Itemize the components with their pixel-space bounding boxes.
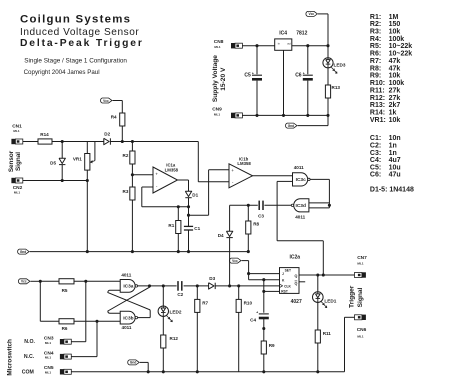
svg-text:CLK: CLK xyxy=(284,284,291,288)
svg-text:2k7: 2k7 xyxy=(389,102,401,109)
svg-text:R2:: R2: xyxy=(370,21,381,28)
svg-text:COM: COM xyxy=(22,370,34,376)
svg-text:47k: 47k xyxy=(389,58,401,65)
svg-text:IC3c: IC3c xyxy=(296,177,306,183)
svg-text:R8:: R8: xyxy=(370,65,381,72)
svg-text:C1: C1 xyxy=(194,226,200,231)
svg-text:R14:: R14: xyxy=(370,109,385,116)
svg-text:C4: C4 xyxy=(250,317,256,322)
svg-text:IC4: IC4 xyxy=(279,31,287,37)
svg-text:C5: C5 xyxy=(244,73,251,79)
svg-text:1n: 1n xyxy=(389,150,397,157)
svg-text:IC2a: IC2a xyxy=(290,254,301,260)
svg-text:R11:: R11: xyxy=(370,87,385,94)
svg-text:R1:: R1: xyxy=(370,14,381,21)
svg-text:R5:: R5: xyxy=(370,43,381,50)
svg-text:R3:: R3: xyxy=(370,29,381,36)
svg-text:VR1:: VR1: xyxy=(370,117,386,124)
svg-text:SET: SET xyxy=(285,269,291,273)
svg-text:Sensor: Sensor xyxy=(8,150,15,172)
svg-text:Single Stage / Stage 1 Conf: Single Stage / Stage 1 Configuration xyxy=(24,58,127,65)
svg-text:C2: C2 xyxy=(177,292,183,297)
svg-text:C3: C3 xyxy=(258,213,264,218)
svg-text:+: + xyxy=(303,72,305,76)
svg-text:Delta-Peak Trigger: Delta-Peak Trigger xyxy=(20,38,144,49)
svg-text:R13:: R13: xyxy=(370,102,385,109)
svg-text:out: out xyxy=(287,41,291,45)
svg-text:VR1: VR1 xyxy=(73,157,82,162)
svg-text:1M: 1M xyxy=(389,14,399,21)
svg-text:R3: R3 xyxy=(123,189,129,194)
svg-text:LED2: LED2 xyxy=(170,310,182,315)
svg-text:Signal: Signal xyxy=(15,152,22,171)
svg-text:J: J xyxy=(282,272,284,276)
svg-text:10k: 10k xyxy=(389,29,401,36)
svg-text:Vcc: Vcc xyxy=(232,259,238,263)
svg-text:R5: R5 xyxy=(62,288,68,293)
svg-text:ML1: ML1 xyxy=(214,45,220,49)
svg-text:R4:: R4: xyxy=(370,36,381,43)
svg-text:R9:: R9: xyxy=(370,73,381,80)
svg-text:150: 150 xyxy=(389,21,401,28)
svg-text:ML1: ML1 xyxy=(13,129,19,133)
svg-text:27k: 27k xyxy=(389,87,401,94)
svg-text:4011: 4011 xyxy=(294,165,304,170)
svg-text:R13: R13 xyxy=(332,85,341,90)
svg-text:R7: R7 xyxy=(202,300,208,305)
svg-text:1n: 1n xyxy=(389,143,397,150)
svg-text:N.C.: N.C. xyxy=(24,354,35,360)
svg-text:C4:: C4: xyxy=(370,157,381,164)
svg-text:Supply Voltage: Supply Voltage xyxy=(212,55,219,102)
svg-text:LM358: LM358 xyxy=(237,161,251,166)
svg-text:C2:: C2: xyxy=(370,143,381,150)
svg-text:R4: R4 xyxy=(111,115,117,120)
svg-text:C6:: C6: xyxy=(370,172,381,179)
svg-text:10k: 10k xyxy=(389,117,401,124)
svg-text:4u7: 4u7 xyxy=(389,157,401,164)
svg-text:47k: 47k xyxy=(389,65,401,72)
svg-text:ML1: ML1 xyxy=(357,262,363,266)
svg-text:D1: D1 xyxy=(192,192,198,197)
svg-text:R14: R14 xyxy=(40,132,49,137)
svg-text:IC3a: IC3a xyxy=(123,284,133,290)
svg-text:R2: R2 xyxy=(123,153,129,158)
svg-text:D1-5: 1N4148: D1-5: 1N4148 xyxy=(370,187,414,194)
svg-text:Copyright 2004 James Paul: Copyright 2004 James Paul xyxy=(24,69,100,76)
svg-text:47u: 47u xyxy=(389,172,401,179)
svg-text:D4: D4 xyxy=(218,233,224,238)
svg-text:Coilgun Systems: Coilgun Systems xyxy=(20,14,131,26)
svg-text:C1:: C1: xyxy=(370,135,381,142)
svg-text:N.O.: N.O. xyxy=(24,339,35,345)
svg-text:10~22k: 10~22k xyxy=(389,51,413,58)
svg-text:R11: R11 xyxy=(323,331,332,336)
svg-text:+: + xyxy=(252,72,254,76)
svg-text:R7:: R7: xyxy=(370,58,381,65)
svg-text:Microswitch: Microswitch xyxy=(7,339,14,376)
svg-text:ML1: ML1 xyxy=(45,341,51,345)
svg-text:Induced Voltage Sensor: Induced Voltage Sensor xyxy=(20,27,139,38)
svg-text:C3:: C3: xyxy=(370,150,381,157)
svg-text:+: + xyxy=(231,168,234,173)
svg-text:27k: 27k xyxy=(389,95,401,102)
svg-text:10~22k: 10~22k xyxy=(389,43,413,50)
svg-text:R8: R8 xyxy=(253,221,259,226)
svg-text:100k: 100k xyxy=(389,36,405,43)
svg-text:LED1: LED1 xyxy=(324,298,336,303)
svg-text:1k: 1k xyxy=(389,109,397,116)
svg-text:4011: 4011 xyxy=(122,325,132,330)
svg-text:Vcc: Vcc xyxy=(103,99,109,103)
svg-text:LM358: LM358 xyxy=(165,167,179,172)
svg-text:D5: D5 xyxy=(50,160,56,165)
svg-text:+: + xyxy=(155,172,158,177)
svg-text:100k: 100k xyxy=(389,80,405,87)
svg-text:Vcc: Vcc xyxy=(21,280,27,284)
svg-text:Q: Q xyxy=(294,274,297,278)
svg-text:R6: R6 xyxy=(62,326,68,331)
svg-text:Q: Q xyxy=(294,281,297,285)
svg-text:10n: 10n xyxy=(389,135,401,142)
svg-text:IC3b: IC3b xyxy=(123,315,133,321)
svg-text:10u: 10u xyxy=(389,164,401,171)
svg-text:4027: 4027 xyxy=(291,299,302,305)
svg-text:7812: 7812 xyxy=(296,31,307,37)
svg-text:4011: 4011 xyxy=(295,215,305,220)
svg-text:RST: RST xyxy=(281,290,288,294)
svg-text:4011: 4011 xyxy=(121,272,131,277)
svg-text:ML1: ML1 xyxy=(45,356,51,360)
svg-text:15-20 V: 15-20 V xyxy=(220,67,227,91)
svg-text:D3: D3 xyxy=(209,276,215,281)
svg-text:Vcc: Vcc xyxy=(308,12,314,16)
svg-text:R12: R12 xyxy=(170,336,179,341)
svg-text:Trigger: Trigger xyxy=(348,285,355,308)
svg-text:C5:: C5: xyxy=(370,164,381,171)
svg-text:R1: R1 xyxy=(168,223,174,228)
svg-text:R9: R9 xyxy=(269,343,275,348)
svg-text:LED3: LED3 xyxy=(334,63,346,68)
svg-text:ML1: ML1 xyxy=(357,335,363,339)
svg-text:Gnd: Gnd xyxy=(130,361,136,365)
svg-text:IC3d: IC3d xyxy=(295,203,305,209)
svg-text:Gnd: Gnd xyxy=(20,250,26,254)
svg-text:Signal: Signal xyxy=(357,287,364,307)
svg-text:R10: R10 xyxy=(244,300,253,305)
svg-text:ML1: ML1 xyxy=(214,113,220,117)
svg-text:CN7: CN7 xyxy=(357,255,367,261)
svg-text:ML1: ML1 xyxy=(14,191,20,195)
svg-text:C6: C6 xyxy=(295,73,302,79)
svg-text:D2: D2 xyxy=(104,132,110,137)
svg-text:R12:: R12: xyxy=(370,95,385,102)
svg-text:R6:: R6: xyxy=(370,51,381,58)
svg-text:CN6: CN6 xyxy=(357,327,367,333)
svg-text:Gnd: Gnd xyxy=(288,124,294,128)
svg-text:10k: 10k xyxy=(389,73,401,80)
svg-text:ML1: ML1 xyxy=(45,371,51,375)
svg-text:+: + xyxy=(256,310,258,314)
svg-text:R10:: R10: xyxy=(370,80,385,87)
